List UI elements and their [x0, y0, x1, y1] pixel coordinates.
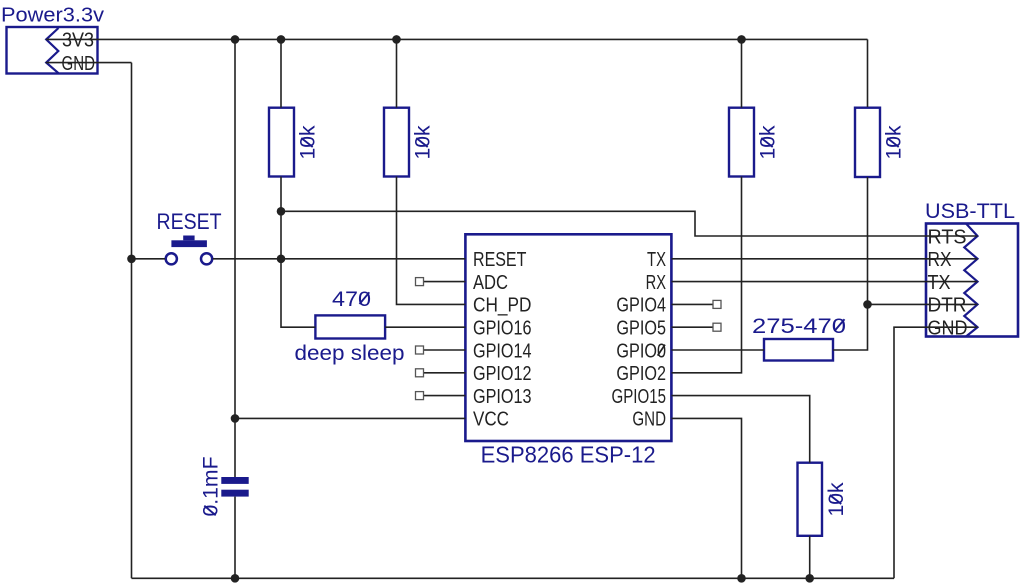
- wire GPIO5 stub: [672, 326, 714, 328]
- svg-text:GPIO13: GPIO13: [473, 386, 532, 408]
- wire GPIO13 stub: [424, 395, 466, 397]
- svg-text:GPIO14: GPIO14: [473, 340, 532, 362]
- resistor R5 10k body: [798, 463, 823, 536]
- wire 3V3 to C1 top / VCC branch: [234, 39, 236, 477]
- wire left ground rail: [131, 63, 133, 579]
- resistor R1 10k body: [269, 108, 294, 177]
- wire GPIO15 to R5: [672, 396, 810, 463]
- svg-text:GPIO0: GPIO0: [616, 340, 666, 362]
- value label R5 10k: [825, 482, 848, 517]
- junction RESET/RTS: [277, 207, 286, 216]
- resistor R4 10k body: [855, 108, 880, 177]
- resistor R3 10k body: [729, 108, 754, 177]
- wire GPIO12 stub: [424, 372, 466, 374]
- wire ground rail to SW1: [132, 258, 166, 260]
- wire ground to J2 GND: [894, 327, 978, 578]
- svg-text:GPIO15: GPIO15: [612, 386, 667, 408]
- svg-text:0.1mF: 0.1mF: [200, 457, 223, 517]
- pushbutton SW1 RESET actuator cap: [171, 240, 207, 247]
- wire bottom ground rail: [132, 577, 895, 579]
- no-connect square GPIO13: [416, 392, 424, 400]
- wire R6 to GPIO16: [385, 326, 465, 328]
- svg-text:GPIO5: GPIO5: [616, 318, 666, 340]
- junction RESET net: [277, 254, 286, 263]
- wire RESET net to J2 RTS: [281, 211, 978, 236]
- svg-text:deep sleep: deep sleep: [295, 342, 405, 365]
- svg-text:RX: RX: [928, 249, 952, 271]
- svg-text:275-470: 275-470: [752, 315, 846, 338]
- connector J1 Power3.3v body: [7, 27, 98, 74]
- wire R1 to RESET net and R6: [281, 177, 315, 328]
- svg-text:GND: GND: [632, 409, 666, 431]
- svg-text:RTS: RTS: [928, 226, 967, 248]
- wire R5 to ground rail: [809, 536, 811, 579]
- wire U1 GND to ground rail: [672, 418, 742, 578]
- wire U1 RX to J2 TX: [672, 281, 978, 283]
- svg-text:GPIO12: GPIO12: [473, 363, 532, 385]
- wire 3V3 to R2: [396, 39, 398, 107]
- junction 3V3/C1 branch: [231, 35, 240, 44]
- svg-text:TX: TX: [647, 249, 666, 271]
- IC U1 ESP8266 ESP-12 body: [465, 234, 671, 441]
- junction 3V3/R2: [392, 35, 401, 44]
- wire 3V3 to R1: [280, 39, 282, 107]
- value label R3 10k: [757, 125, 780, 160]
- wire R2 to CH_PD: [397, 177, 466, 305]
- wire R3 to GPIO2: [672, 177, 742, 373]
- connector J2 USB-TTL body: [926, 224, 1018, 337]
- no-connect square GPIO12: [416, 369, 424, 377]
- svg-text:Power3.3v: Power3.3v: [1, 5, 104, 27]
- junction C1/ground rail: [231, 574, 240, 583]
- wire ADC stub: [424, 281, 466, 283]
- value label R1 10k: [297, 125, 320, 160]
- junction ground/SW1: [127, 254, 136, 263]
- value label R4 10k: [883, 125, 906, 160]
- wire GPIO4 stub: [672, 303, 714, 305]
- svg-text:GPIO2: GPIO2: [616, 363, 666, 385]
- wire R4 to DTR net: [867, 177, 869, 304]
- wire SW1 to U1 RESET: [213, 258, 466, 260]
- value label R2 10k: [412, 125, 435, 160]
- svg-text:USB-TTL: USB-TTL: [925, 200, 1015, 223]
- no-connect square GPIO4: [713, 300, 721, 308]
- svg-text:RESET: RESET: [157, 209, 222, 234]
- connector J2 pin chevrons: [964, 224, 977, 337]
- resistor R7 275-470 body: [764, 339, 833, 361]
- svg-text:RX: RX: [646, 272, 666, 294]
- pushbutton SW1 contact pins: [166, 253, 177, 264]
- svg-text:ADC: ADC: [473, 272, 508, 294]
- svg-text:3V3: 3V3: [62, 30, 94, 52]
- connector J1 pin chevrons: [46, 28, 58, 73]
- wire GPIO14 stub: [424, 349, 466, 351]
- svg-text:TX: TX: [928, 272, 951, 294]
- junction R5/ground rail: [805, 574, 814, 583]
- no-connect square GPIO14: [416, 346, 424, 354]
- junction DTR net: [863, 300, 872, 309]
- no-connect square ADC: [416, 278, 424, 286]
- svg-text:GND: GND: [928, 318, 968, 340]
- junction VCC/C1: [231, 414, 240, 423]
- wire GPIO0 to R7: [672, 349, 765, 351]
- resistor R6 470 body: [315, 315, 385, 338]
- svg-text:RESET: RESET: [473, 249, 526, 271]
- svg-text:VCC: VCC: [473, 409, 509, 431]
- wire VCC to U1: [235, 417, 465, 419]
- wire GND from J1: [46, 62, 132, 64]
- wire 3V3 top rail: [46, 38, 867, 40]
- wire 3V3 to R3: [741, 39, 743, 107]
- junction 3V3/R3: [737, 35, 746, 44]
- svg-text:GND: GND: [62, 53, 96, 75]
- svg-text:DTR: DTR: [928, 295, 967, 317]
- junction U1 GND/ground rail: [737, 574, 746, 583]
- resistor R2 10k body: [384, 108, 409, 177]
- wire top rail drop to R4: [867, 39, 869, 107]
- value label C1 0.1mF: [200, 457, 223, 517]
- svg-text:ESP8266 ESP-12: ESP8266 ESP-12: [481, 441, 656, 467]
- junction 3V3/R1: [277, 35, 286, 44]
- wire DTR to J2: [868, 303, 978, 305]
- capacitor C1 0.1mF plates: [221, 477, 248, 484]
- wire U1 TX to J2 RX: [672, 258, 978, 260]
- no-connect square GPIO5: [713, 323, 721, 331]
- svg-text:470: 470: [332, 288, 371, 311]
- svg-text:GPIO16: GPIO16: [473, 318, 532, 340]
- svg-text:CH_PD: CH_PD: [473, 295, 531, 317]
- wire R7 to DTR net: [833, 304, 868, 350]
- svg-text:GPIO4: GPIO4: [616, 295, 666, 317]
- wire C1 bottom to ground rail: [234, 497, 236, 579]
